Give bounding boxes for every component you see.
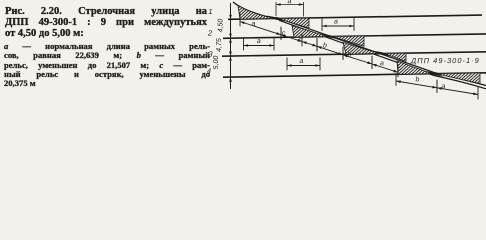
svg-text:а: а bbox=[334, 18, 338, 25]
vertical inter-track dimension line bbox=[230, 3, 232, 89]
svg-text:а: а bbox=[380, 60, 384, 67]
svg-text:4,75: 4,75 bbox=[216, 38, 223, 52]
dim a below track 3 bbox=[286, 57, 288, 70]
svg-text:b: b bbox=[348, 51, 352, 59]
wire track 1 line bbox=[228, 15, 482, 19]
dim c along street gap 2 bbox=[316, 38, 318, 51]
svg-text:4,50: 4,50 bbox=[218, 19, 225, 33]
svg-text:а: а bbox=[288, 0, 292, 5]
wire street upper rail bbox=[276, 17, 434, 72]
dim b along street gap 3 bbox=[342, 47, 344, 60]
dim b along street tail bbox=[395, 73, 397, 86]
dim b along street gap 2 bbox=[316, 38, 318, 51]
turnout 2 departure wedge (hatched) bbox=[332, 36, 364, 46]
wire street tail upper rail bbox=[434, 73, 486, 86]
dim a below track 1 right bbox=[321, 18, 323, 31]
wire track 4 line bbox=[223, 73, 486, 77]
dim a above track 1 bbox=[275, 2, 277, 16]
dim a along street gap 3 bbox=[371, 56, 373, 69]
svg-text:2: 2 bbox=[207, 28, 213, 37]
crossing core track 1 bbox=[266, 16, 286, 22]
svg-text:ДПП 49-300-1·9: ДПП 49-300-1·9 bbox=[410, 56, 480, 65]
wire track 2 line bbox=[223, 34, 486, 38]
svg-text:c: c bbox=[299, 37, 303, 44]
wire street tail lower rail bbox=[434, 76, 486, 89]
wire street entry lead rail bbox=[233, 2, 276, 19]
dim a along street tail bbox=[436, 80, 438, 93]
svg-text:а: а bbox=[442, 83, 446, 90]
crossing core track 2 bbox=[320, 34, 340, 40]
turnout 2 approach wedge (hatched) bbox=[292, 26, 330, 38]
wire track 3 line bbox=[222, 52, 486, 56]
turnout 3 departure wedge (hatched) bbox=[384, 53, 406, 61]
dim c along street gap 1-2 bbox=[280, 27, 282, 40]
figure caption bbox=[5, 6, 207, 39]
wire street lower rail bbox=[279, 20, 434, 75]
dim a below track 2 bbox=[243, 37, 245, 50]
svg-text:b: b bbox=[323, 41, 327, 49]
caption legend small text bbox=[4, 42, 210, 88]
svg-text:5,00: 5,00 bbox=[213, 56, 220, 70]
turnout 4 departure wedge (hatched) bbox=[436, 73, 480, 84]
svg-text:c: c bbox=[282, 30, 286, 37]
turnout 4 approach wedge (hatched) bbox=[397, 61, 434, 74]
turnout 1 approach wedge (hatched) bbox=[238, 5, 276, 19]
turnout 3 approach wedge (hatched) bbox=[343, 42, 382, 54]
svg-text:b: b bbox=[416, 75, 420, 83]
svg-text:а: а bbox=[252, 21, 256, 28]
dim a along street gap 1 bbox=[239, 13, 241, 26]
svg-text:а: а bbox=[257, 38, 261, 45]
diagram: switch street figure bbox=[0, 0, 486, 113]
svg-text:а: а bbox=[300, 58, 304, 65]
crossing core track 3 bbox=[372, 51, 392, 57]
crossing core track 4 bbox=[424, 71, 444, 77]
turnout 1 departure wedge (hatched) bbox=[278, 18, 309, 28]
svg-text:1: 1 bbox=[208, 7, 212, 16]
